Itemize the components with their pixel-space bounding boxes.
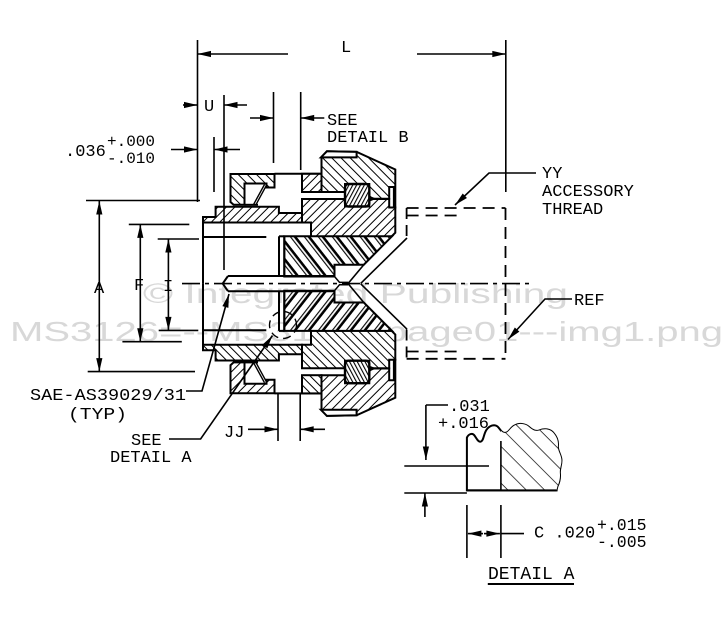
dim JJ left arrow [248,428,278,430]
thread box bottom edge [407,358,506,360]
dim F arrow line [139,224,141,341]
svg-text:DETAIL B: DETAIL B [327,129,409,148]
dim L left extension line [197,40,199,202]
insert interface top edge [279,235,284,237]
dim JJ right extension line [299,394,301,441]
svg-text:(TYP): (TYP) [68,406,127,425]
svg-text:REF: REF [574,292,605,311]
grommet lip shape [467,424,562,490]
shell front tube [302,174,322,192]
dim .036 extension line [213,137,215,192]
svg-text:L: L [341,39,351,58]
dim C left extension line [466,505,468,558]
svg-text:DETAIL A: DETAIL A [110,449,192,468]
dim .031 up arrow [424,493,426,517]
contact pin top line [228,275,335,277]
thread box top inner line [407,215,457,217]
insert block [284,236,392,276]
grommet lip hatch fill [501,420,571,490]
socket throat [335,277,349,283]
pin tip chamfer [223,276,228,284]
outer cone arm [361,238,407,283]
cavity bottom line [203,236,266,238]
insert interface line left [278,236,280,276]
thread box top edge [407,207,506,209]
dim C right extension line [500,505,502,558]
svg-text:F: F [134,277,144,296]
dim L right arrow [417,53,506,55]
shell barrel [302,199,395,237]
shell left face [202,217,204,284]
retaining clip diagonal line 1 [253,185,264,205]
dim L right extension line [505,40,507,192]
o-ring [345,184,369,207]
thread box bottom inner line [407,351,457,353]
mirrored lower half of connector body [203,284,407,416]
svg-text:-.005: -.005 [597,533,647,552]
svg-text:JJ: JJ [224,424,244,443]
svg-text:C .020: C .020 [534,525,595,544]
shell flange band [203,207,302,223]
shell front edge line [275,173,322,175]
svg-text:-.010: -.010 [107,150,155,168]
dim A arrow line [98,201,100,372]
title underline [488,583,574,585]
coupling nut (cap) [322,151,396,207]
dim C left arrow [468,533,483,535]
leader YY accessory thread [455,173,536,205]
dim .036 right arrow [214,149,240,151]
thread box left edge upper [406,208,408,238]
dim .036 left arrow [171,149,198,151]
retaining clip diagonal line 2 [256,186,266,205]
svg-text:U: U [204,98,214,117]
svg-text:A: A [94,280,105,299]
grommet lip inner boundary [500,441,502,490]
insert interface line right [283,236,285,276]
half to be mirrored [203,151,407,283]
dim .031 bracket top [426,404,448,406]
grommet lip bottom edge [467,489,557,491]
detail A balloon circle [270,312,297,339]
dim JJ right arrow [300,428,325,430]
svg-text:+.016: +.016 [438,415,489,434]
detail B right extension line [300,92,302,170]
dim C leader stub [501,533,524,535]
dim JJ left extension line [277,394,279,441]
leader SAE-AS39029/31 [186,294,229,391]
svg-text:SAE-AS39029/31: SAE-AS39029/31 [30,387,186,406]
svg-text:YY: YY [542,165,562,184]
dim L left arrow [198,53,289,55]
svg-text:+.000: +.000 [107,133,155,151]
dim I bottom extension line [159,329,199,331]
dim U right arrow [224,104,247,106]
thread box right edge [505,208,507,359]
dim I arrow line [167,239,169,330]
dim F top extension line [129,223,190,225]
cap top white bevel [321,151,357,157]
dim I top extension line [158,238,199,240]
detail A upper surface line [404,465,489,467]
detail A lower surface line [404,492,467,494]
inner cone arm [348,265,364,284]
svg-text:I: I [163,278,173,297]
gasket retainer P1 [231,174,275,205]
detail B left extension line [273,92,275,163]
centerline [182,283,531,285]
svg-text:ACCESSORY: ACCESSORY [542,183,634,202]
o-ring groove wedge [369,196,376,202]
dim A top extension line [86,200,200,202]
dim .031 down arrow [425,405,427,460]
svg-text:.036: .036 [65,143,106,162]
gasket groove bottom edge [245,204,259,206]
leader REF [508,299,572,340]
svg-text:THREAD: THREAD [542,201,603,220]
dim U left arrow [183,104,198,106]
thread box left edge lower [406,330,408,359]
dim A bottom extension line [88,371,195,373]
leader SEE DETAIL A [169,336,273,440]
detail B left arrow [250,117,274,119]
dim U right extension line [223,95,225,270]
accessory thread dashed box [407,208,506,359]
svg-text:DETAIL A: DETAIL A [488,565,575,585]
dim F bottom extension line [122,341,181,343]
detail B right arrow [301,117,325,119]
dim C right arrow [484,533,500,535]
